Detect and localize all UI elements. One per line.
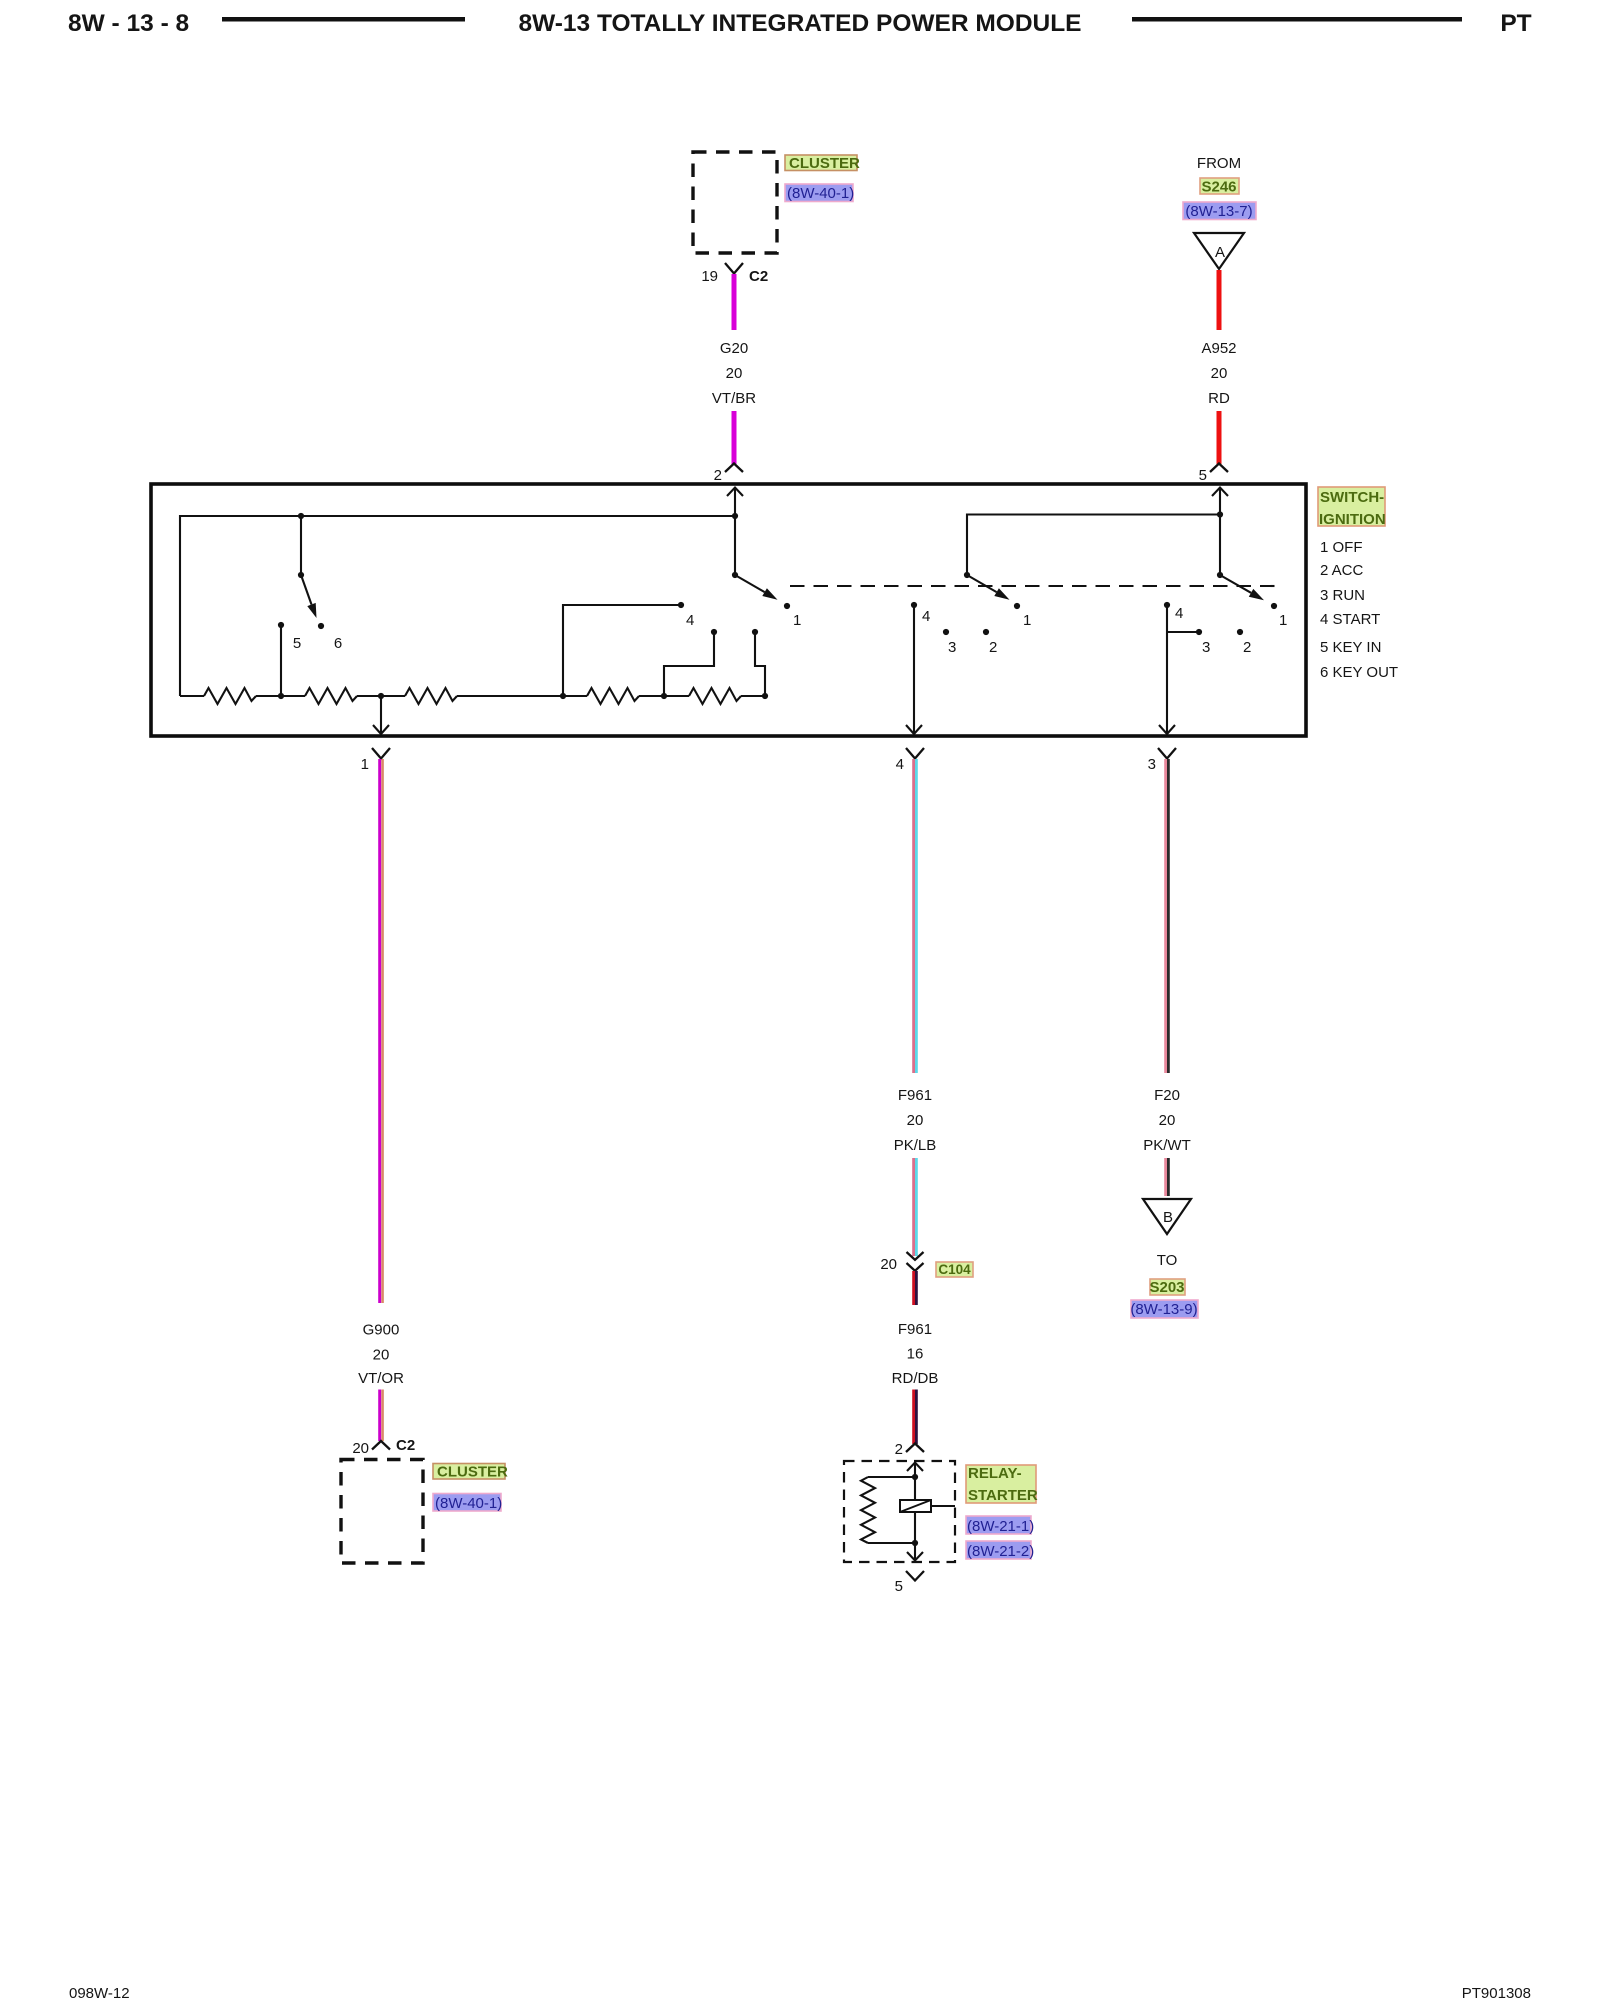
resistor R1: [204, 688, 256, 704]
svg-text:1: 1: [1279, 612, 1287, 629]
resistor R4: [587, 688, 639, 704]
contact 4 left: [678, 602, 684, 608]
wire relay coil right lead: [931, 1505, 955, 1507]
svg-text:16: 16: [907, 1346, 924, 1363]
svg-text:F961: F961: [898, 1321, 932, 1338]
svg-text:3: 3: [1148, 756, 1156, 773]
label C104: [936, 1262, 973, 1277]
svg-text:1: 1: [1023, 612, 1031, 629]
wire F20 short segment dark: [1167, 1158, 1170, 1196]
label CLUSTER (top): [785, 155, 860, 172]
svg-text:20: 20: [880, 1256, 897, 1273]
wire contact 2 left L: [755, 634, 765, 696]
arrowhead pin1 down: [373, 725, 389, 734]
svg-text:IGNITION: IGNITION: [1319, 511, 1386, 528]
resistor R5: [689, 688, 741, 704]
wire key-out switch pivot drop: [300, 516, 302, 575]
svg-text:098W-12: 098W-12: [69, 1985, 130, 2000]
header rule right: [1132, 17, 1462, 22]
svg-text:PK/WT: PK/WT: [1143, 1137, 1191, 1154]
svg-text:G20: G20: [720, 340, 748, 357]
svg-text:3 RUN: 3 RUN: [1320, 587, 1365, 604]
relay-starter dashed box: [844, 1461, 955, 1562]
svg-text:RD/DB: RD/DB: [892, 1370, 939, 1387]
junction contact3L/resistor row: [661, 693, 667, 699]
contact 2 sw3: [1237, 629, 1243, 635]
contact 3 sw2: [943, 629, 949, 635]
svg-text:VT/OR: VT/OR: [358, 1370, 404, 1387]
wire G900 short segment orange: [381, 1390, 384, 1442]
svg-text:5 KEY IN: 5 KEY IN: [1320, 639, 1381, 656]
label (8W-21-1): [966, 1516, 1034, 1535]
junction relay bottom: [912, 1540, 918, 1546]
junction contact5/resistor row: [278, 693, 284, 699]
wire F20 short segment pink: [1164, 1158, 1167, 1196]
wire relay coil stem: [914, 1462, 916, 1543]
svg-text:STARTER: STARTER: [968, 1487, 1038, 1504]
switch wiper key-out (to contact 6): [301, 575, 312, 605]
svg-text:(8W-40-1): (8W-40-1): [787, 185, 854, 202]
svg-text:VT/BR: VT/BR: [712, 390, 756, 407]
svg-text:4: 4: [922, 608, 930, 625]
svg-text:1: 1: [793, 612, 801, 629]
wire pin5 input stem: [1219, 488, 1221, 575]
wire G900 short segment violet: [378, 1390, 381, 1442]
connector half-arrow pin3: [1158, 748, 1176, 759]
svg-text:8W-13 TOTALLY INTEGRATED POWER: 8W-13 TOTALLY INTEGRATED POWER MODULE: [518, 10, 1081, 37]
resistor R2: [305, 688, 357, 704]
junction pin1/resistor row: [378, 693, 384, 699]
label RELAY-STARTER: [966, 1465, 1038, 1504]
wire G20 lower segment: [732, 411, 737, 464]
svg-text:4: 4: [686, 612, 694, 629]
svg-text:TO: TO: [1157, 1252, 1178, 1269]
wire A952 upper segment (RD): [1217, 270, 1222, 330]
svg-text:CLUSTER: CLUSTER: [437, 1464, 508, 1481]
connector half-arrow pin4: [906, 748, 924, 759]
svg-text:PT901308: PT901308: [1462, 1985, 1531, 2000]
svg-text:(8W-21-2): (8W-21-2): [967, 1543, 1034, 1560]
wire F20 long segment (PK/WT) pink stripe: [1164, 759, 1167, 1073]
off-page triangle B: [1143, 1199, 1191, 1234]
label S203: [1149, 1279, 1185, 1296]
wire F961 segment 4 red: [912, 1390, 915, 1445]
wire A952 lower segment: [1217, 411, 1222, 464]
svg-text:S246: S246: [1201, 179, 1236, 196]
wire relay pin5 stem: [914, 1543, 916, 1560]
svg-text:(8W-13-7): (8W-13-7): [1185, 203, 1252, 220]
svg-text:20: 20: [1159, 1112, 1176, 1129]
label SWITCH-IGNITION: [1318, 487, 1386, 528]
label CLUSTER (bottom): [433, 1464, 508, 1481]
contact 1 sw3: [1271, 603, 1277, 609]
wire R5 tail: [741, 695, 765, 697]
svg-text:A: A: [1215, 244, 1225, 261]
svg-text:1 OFF: 1 OFF: [1320, 539, 1363, 556]
wire R3-R4: [457, 695, 587, 697]
wire G900 orange tracer stripe: [381, 759, 384, 1303]
svg-text:C2: C2: [749, 268, 768, 285]
svg-text:20: 20: [352, 1440, 369, 1457]
pivot sw3: [1217, 572, 1223, 578]
contact 6: [318, 623, 324, 629]
contact 4 sw3: [1164, 602, 1170, 608]
svg-text:F20: F20: [1154, 1087, 1180, 1104]
connector C2 pin19 half-arrow: [725, 263, 743, 274]
svg-text:19: 19: [701, 268, 718, 285]
off-page triangle A: [1194, 233, 1244, 269]
wire F961 long segment (PK/LB) pink stripe: [912, 759, 915, 1073]
wire contact 3 right spur: [1167, 631, 1197, 633]
svg-text:(8W-40-1): (8W-40-1): [435, 1495, 502, 1512]
wire contact 4 left L: [563, 605, 681, 696]
label S246: [1200, 178, 1239, 196]
svg-text:F961: F961: [898, 1087, 932, 1104]
svg-text:3: 3: [948, 639, 956, 656]
svg-text:RD: RD: [1208, 390, 1230, 407]
svg-text:SWITCH-: SWITCH-: [1320, 489, 1384, 506]
wire top rail left: [180, 516, 735, 696]
contact 2 sw2: [983, 629, 989, 635]
svg-text:6 KEY OUT: 6 KEY OUT: [1320, 664, 1398, 681]
svg-text:S203: S203: [1149, 1279, 1184, 1296]
contact 3 sw3: [1196, 629, 1202, 635]
resistor R3: [405, 688, 457, 704]
wire F961 segment 4 dark blue: [915, 1390, 918, 1445]
junction relay top: [912, 1474, 918, 1480]
svg-text:20: 20: [373, 1347, 390, 1364]
label (8W-13-9): [1130, 1300, 1198, 1318]
svg-text:5: 5: [895, 1578, 903, 1595]
wire R2-R3: [357, 695, 405, 697]
svg-text:(8W-13-9): (8W-13-9): [1130, 1301, 1197, 1318]
contact 5: [278, 622, 284, 628]
svg-text:20: 20: [726, 365, 743, 382]
svg-text:1: 1: [361, 756, 369, 773]
arrowhead pin3 down: [1159, 725, 1175, 734]
wire R1-R2: [256, 695, 305, 697]
connector half-arrow relay pin5: [906, 1571, 924, 1581]
contact 3 left: [711, 629, 717, 635]
svg-text:5: 5: [1199, 467, 1207, 484]
svg-text:4: 4: [896, 756, 904, 773]
wire R4-R5: [639, 695, 689, 697]
wire F961 dark blue tracer: [915, 1271, 918, 1305]
pivot sw1: [732, 572, 738, 578]
svg-text:2: 2: [989, 639, 997, 656]
arrowhead relay pin5 down: [907, 1552, 923, 1561]
label (8W-21-2): [966, 1541, 1034, 1560]
pivot key-out: [298, 572, 304, 578]
svg-text:20: 20: [1211, 365, 1228, 382]
svg-text:4 START: 4 START: [1320, 611, 1380, 628]
svg-text:2 ACC: 2 ACC: [1320, 562, 1364, 579]
svg-text:6: 6: [334, 635, 342, 652]
switch wiper START (sw3 to contact 1): [1220, 575, 1251, 593]
switch wiper ACC (sw1 to contact 1): [735, 575, 765, 592]
wire F961 light blue tracer: [915, 759, 918, 1073]
wire contact 3 left L: [664, 634, 714, 696]
svg-text:A952: A952: [1201, 340, 1236, 357]
arrowhead relay pin2 up: [907, 1463, 923, 1472]
junction contact2L/resistor row end: [762, 693, 768, 699]
junction top rail / sw1: [732, 513, 738, 519]
contact 2 left: [752, 629, 758, 635]
cluster (top) dashed box: [693, 152, 777, 253]
connector caret relay pin2: [906, 1444, 924, 1453]
wire F961 segment 2 pink: [912, 1158, 915, 1256]
svg-text:RELAY-: RELAY-: [968, 1465, 1022, 1482]
contact 1 sw2: [1014, 603, 1020, 609]
svg-text:8W - 13 - 8: 8W - 13 - 8: [68, 10, 189, 37]
wire pin2 input stem: [734, 488, 736, 575]
relay coil box: [900, 1500, 931, 1512]
switch wiper RUN (sw2 to contact 1): [967, 575, 997, 592]
svg-text:2: 2: [1243, 639, 1251, 656]
wire pin4 output stem: [913, 607, 915, 733]
svg-text:C2: C2: [396, 1437, 415, 1454]
arrowhead pin5 up: [1212, 488, 1228, 497]
wire F20 dark tracer stripe: [1167, 759, 1170, 1073]
wire F961 segment 2 light blue: [915, 1158, 918, 1256]
switch-ignition outline box: [151, 484, 1306, 736]
contact 4 sw2: [911, 602, 917, 608]
arrowhead pin4 down: [906, 725, 922, 734]
svg-text:20: 20: [907, 1112, 924, 1129]
wire resistor row lead-in: [180, 695, 204, 697]
connector half-arrow pin1: [372, 748, 390, 759]
pivot sw2: [964, 572, 970, 578]
connector C104 double chevron: [907, 1252, 924, 1271]
svg-text:2: 2: [895, 1441, 903, 1458]
wire G20 upper segment (VT/BR): [732, 274, 737, 330]
arrowhead pin2 up: [727, 488, 743, 497]
cluster (bottom) dashed box: [341, 1460, 423, 1564]
svg-text:C104: C104: [938, 1262, 971, 1277]
svg-text:PK/LB: PK/LB: [894, 1137, 937, 1154]
header rule left: [222, 17, 465, 22]
wire F961 16ga segment (RD/DB) red stripe: [912, 1271, 915, 1305]
svg-text:G900: G900: [363, 1322, 400, 1339]
label (8W-40-1) (bottom): [433, 1494, 502, 1513]
wire top rail right: [967, 515, 1220, 576]
connector caret cluster C2 pin20: [372, 1441, 390, 1450]
svg-text:B: B: [1163, 1209, 1173, 1226]
connector caret at TIPM pin 5: [1210, 464, 1228, 473]
svg-text:3: 3: [1202, 639, 1210, 656]
wire relay resistor bottom link: [868, 1542, 915, 1544]
svg-text:CLUSTER: CLUSTER: [789, 155, 860, 172]
label (8W-40-1) (top): [785, 184, 854, 202]
svg-text:FROM: FROM: [1197, 155, 1241, 172]
svg-text:PT: PT: [1500, 10, 1531, 37]
connector caret at TIPM pin 2: [725, 464, 743, 473]
wire G900 long segment (VT/OR) violet stripe: [378, 759, 381, 1303]
contact 1 sw1: [784, 603, 790, 609]
wire contact 5 drop: [280, 627, 282, 696]
wire pin1 output stem: [380, 696, 382, 733]
mechanical linkage dashed line: [790, 585, 1280, 587]
junction rail/pin5: [1217, 511, 1223, 517]
svg-text:5: 5: [293, 635, 301, 652]
label (8W-13-7): [1183, 202, 1256, 220]
resistor relay suppression (vertical): [861, 1477, 875, 1543]
junction contact4L/resistor row: [560, 693, 566, 699]
junction top rail / key-out: [298, 513, 304, 519]
wire relay resistor top link: [868, 1476, 915, 1478]
svg-text:4: 4: [1175, 605, 1183, 622]
wire pin3 output stem: [1166, 607, 1168, 733]
svg-text:(8W-21-1): (8W-21-1): [967, 1518, 1034, 1535]
svg-text:2: 2: [714, 467, 722, 484]
